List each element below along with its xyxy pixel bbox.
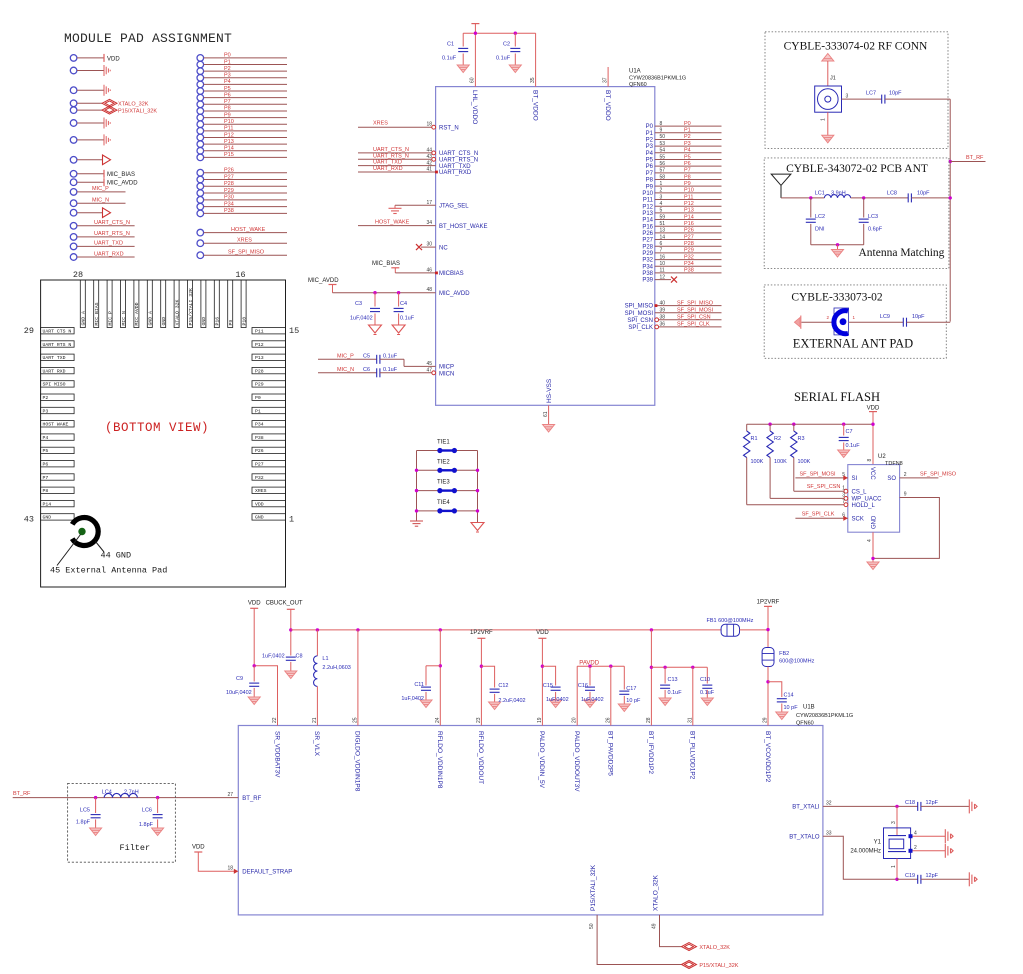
svg-text:DNI: DNI	[815, 227, 825, 233]
pin P1 U1A	[655, 132, 722, 134]
svg-text:SF_SPI_MOSI: SF_SPI_MOSI	[677, 308, 714, 314]
svg-text:UART TXD: UART TXD	[43, 355, 66, 361]
ferrite bead FB2	[762, 648, 774, 667]
TIE right ground	[471, 523, 484, 531]
svg-text:BT_IFVDD1P2: BT_IFVDD1P2	[647, 731, 654, 774]
svg-text:MICN: MICN	[439, 371, 454, 377]
svg-text:LC7: LC7	[866, 91, 876, 97]
wire TIE right rail	[477, 451, 479, 523]
svg-text:P11: P11	[224, 126, 233, 132]
node LC6 junction	[156, 796, 159, 799]
module left pad P7	[41, 474, 75, 480]
svg-text:35: 35	[530, 77, 536, 83]
svg-text:GND: GND	[255, 515, 264, 521]
pin P26 U1A	[655, 232, 722, 234]
pin P10 U1A	[655, 192, 722, 194]
pad P15/XTALI_32K	[70, 107, 77, 114]
svg-text:48: 48	[426, 287, 432, 293]
svg-text:9: 9	[904, 492, 907, 498]
pin NC	[421, 246, 436, 248]
svg-text:61: 61	[543, 411, 549, 417]
svg-text:SPI_CLK: SPI_CLK	[628, 325, 653, 331]
svg-text:Y1: Y1	[874, 840, 882, 846]
dashed box RF CONN	[765, 32, 948, 149]
svg-text:P32: P32	[684, 254, 694, 260]
svg-text:UART_RTS_N: UART_RTS_N	[439, 158, 478, 164]
svg-text:U2: U2	[878, 454, 886, 460]
svg-text:LC1: LC1	[815, 190, 825, 196]
svg-text:P28: P28	[255, 368, 264, 374]
module left pad P3	[41, 407, 75, 413]
svg-text:P34: P34	[642, 264, 653, 270]
svg-text:P10: P10	[241, 317, 247, 326]
pin P5 U1A	[655, 158, 722, 160]
capacitor LC5	[95, 798, 97, 813]
pin P3 U1A	[655, 145, 722, 147]
svg-text:DIGLDO_VDDIN1P8: DIGLDO_VDDIN1P8	[354, 731, 361, 792]
svg-text:P38: P38	[642, 271, 653, 277]
svg-text:2: 2	[914, 845, 917, 851]
svg-text:P34: P34	[224, 201, 234, 207]
pin P12 U1A	[655, 205, 722, 207]
module top pad GND A	[147, 280, 152, 328]
svg-text:MODULE PAD ASSIGNMENT: MODULE PAD ASSIGNMENT	[64, 31, 232, 46]
svg-text:4: 4	[867, 539, 873, 542]
svg-text:30: 30	[426, 242, 432, 248]
pad P8	[197, 108, 204, 115]
pad P7	[197, 101, 204, 108]
svg-text:SI: SI	[852, 476, 858, 482]
capacitor C2	[514, 33, 516, 46]
svg-text:BT_VDDO: BT_VDDO	[604, 90, 611, 121]
svg-text:P3: P3	[684, 141, 691, 147]
svg-text:P38: P38	[255, 435, 264, 441]
pin MICBIAS	[435, 272, 438, 275]
pin P4 U1A	[655, 152, 722, 154]
wire antenna to LC1	[781, 197, 824, 199]
module right pad P38	[252, 434, 286, 440]
svg-text:LC8: LC8	[887, 190, 897, 196]
module outline bottom view	[41, 280, 286, 587]
svg-text:P1: P1	[224, 59, 231, 65]
svg-text:GND: GND	[43, 515, 52, 521]
svg-text:VCC: VCC	[869, 467, 875, 480]
svg-text:MIC BIAS: MIC BIAS	[94, 302, 100, 325]
svg-text:HOST_WAKE: HOST_WAKE	[231, 227, 266, 233]
svg-text:1uF,0402: 1uF,0402	[546, 697, 569, 703]
pad P15	[197, 154, 204, 161]
svg-text:P15/XTALI 32K: P15/XTALI 32K	[188, 288, 194, 326]
jumper TIE4	[417, 510, 440, 512]
svg-text:46: 46	[426, 267, 432, 273]
pin P32 U1A	[655, 259, 722, 261]
svg-text:JTAG_SEL: JTAG_SEL	[439, 204, 469, 210]
svg-text:18: 18	[426, 122, 432, 128]
svg-text:13: 13	[660, 228, 666, 234]
svg-text:50: 50	[660, 134, 666, 140]
capacitor LC6	[157, 798, 159, 813]
svg-text:SF_SPI_CSN: SF_SPI_CSN	[677, 315, 711, 321]
svg-text:0.1uF: 0.1uF	[383, 353, 398, 359]
svg-text:8: 8	[867, 459, 873, 462]
svg-text:C14: C14	[784, 693, 794, 699]
svg-text:P29: P29	[255, 382, 264, 388]
svg-text:12pF: 12pF	[926, 873, 939, 879]
svg-text:24.000MHz: 24.000MHz	[850, 849, 881, 855]
module left pad UART CTS N	[41, 328, 75, 334]
svg-text:R2: R2	[774, 436, 781, 442]
svg-text:P9: P9	[646, 184, 654, 190]
svg-text:HOST_WAKE: HOST_WAKE	[375, 219, 410, 225]
svg-text:CS_L: CS_L	[852, 489, 868, 495]
svg-text:LC5: LC5	[80, 808, 90, 814]
pad tri 2	[70, 209, 77, 216]
module right pad P32	[252, 474, 286, 480]
crystal Y1	[896, 806, 898, 835]
svg-text:100K: 100K	[798, 459, 811, 465]
svg-text:P16: P16	[642, 224, 653, 230]
svg-text:TIE4: TIE4	[437, 500, 450, 506]
module right pad P13	[252, 354, 286, 360]
svg-text:HOLD_L: HOLD_L	[852, 503, 876, 509]
svg-text:P14: P14	[642, 218, 653, 224]
svg-text:45 External Antenna Pad: 45 External Antenna Pad	[50, 566, 167, 576]
svg-text:P11: P11	[684, 194, 693, 200]
svg-text:LC4: LC4	[102, 789, 112, 795]
svg-text:RST_N: RST_N	[439, 125, 459, 131]
pin SPI_CSN U1A	[656, 319, 722, 321]
svg-text:1: 1	[821, 118, 827, 121]
svg-text:GND: GND	[872, 515, 878, 529]
svg-text:VDD: VDD	[107, 56, 120, 62]
svg-text:P28: P28	[642, 244, 653, 250]
pad P27	[197, 176, 204, 183]
capacitor C15	[542, 666, 555, 685]
pad XTALO_32K	[70, 100, 77, 107]
pad P30	[197, 197, 204, 204]
module top pad MIC P	[107, 280, 112, 328]
pad NC flag 2	[70, 87, 77, 94]
svg-text:0.1uF: 0.1uF	[400, 316, 415, 322]
svg-text:2.2uH,0603: 2.2uH,0603	[322, 665, 350, 671]
svg-text:P0: P0	[684, 121, 691, 127]
pin BT_HOST_WAKE	[358, 225, 436, 227]
svg-text:P29: P29	[684, 248, 694, 254]
svg-text:GND: GND	[201, 317, 207, 326]
svg-text:LC9: LC9	[880, 314, 890, 320]
node LC5 junction	[94, 796, 97, 799]
svg-text:10: 10	[660, 261, 666, 267]
svg-text:VDD: VDD	[536, 630, 549, 636]
svg-text:P15/XTALI_32K: P15/XTALI_32K	[118, 109, 157, 115]
svg-text:43: 43	[24, 515, 34, 525]
pad NC flag 1	[70, 67, 77, 74]
pin P11 U1A	[655, 199, 722, 201]
svg-text:P0: P0	[255, 395, 261, 401]
pad UART_RTS_N	[70, 234, 77, 241]
svg-text:P14: P14	[224, 146, 234, 152]
svg-text:P34: P34	[684, 261, 694, 267]
svg-text:1.8pF: 1.8pF	[76, 820, 91, 826]
svg-text:LC6: LC6	[142, 808, 152, 814]
svg-text:18: 18	[227, 866, 233, 872]
svg-text:P0: P0	[646, 124, 654, 130]
svg-text:P12: P12	[224, 132, 234, 138]
svg-text:MIC AVDD: MIC AVDD	[134, 302, 140, 325]
svg-text:P27: P27	[224, 174, 234, 180]
svg-text:14: 14	[660, 234, 666, 240]
svg-text:TIE3: TIE3	[437, 480, 450, 486]
svg-text:0.1uF: 0.1uF	[700, 690, 715, 696]
svg-text:SCK: SCK	[852, 517, 864, 523]
pad P34	[197, 203, 204, 210]
svg-text:C17: C17	[626, 686, 636, 692]
svg-text:UART_RXD: UART_RXD	[439, 170, 472, 176]
svg-text:38: 38	[660, 315, 666, 321]
svg-text:P10: P10	[684, 188, 694, 194]
svg-text:C18: C18	[905, 800, 915, 806]
junction dots on VDD rail	[474, 32, 477, 35]
svg-text:7: 7	[842, 499, 845, 505]
svg-text:MIC N: MIC N	[121, 311, 127, 326]
svg-text:CYBLE-333074-02 RF CONN: CYBLE-333074-02 RF CONN	[784, 41, 928, 53]
svg-text:P16: P16	[684, 221, 694, 227]
svg-text:RFLDO_VDDIN1P8: RFLDO_VDDIN1P8	[436, 731, 443, 789]
svg-text:P9: P9	[684, 181, 691, 187]
svg-text:P6: P6	[224, 92, 231, 98]
svg-text:51: 51	[660, 221, 666, 227]
svg-text:MIC_BIAS: MIC_BIAS	[372, 261, 400, 267]
svg-text:0.1uF: 0.1uF	[442, 56, 457, 62]
capacitor C3	[374, 293, 376, 307]
svg-text:2: 2	[660, 188, 663, 194]
capacitor LC8	[908, 193, 911, 202]
svg-text:MIC_AVDD: MIC_AVDD	[107, 181, 138, 187]
svg-text:P4: P4	[43, 435, 49, 441]
wire RFLDO_VDDIN pin	[439, 630, 441, 726]
svg-text:C1: C1	[447, 42, 454, 48]
pad P5	[197, 88, 204, 95]
svg-text:P15/XTALI_32K: P15/XTALI_32K	[590, 864, 597, 911]
svg-text:SERIAL FLASH: SERIAL FLASH	[794, 390, 880, 404]
svg-text:GND A: GND A	[81, 311, 87, 326]
svg-text:BT_RF: BT_RF	[13, 791, 31, 797]
svg-text:10 pF: 10 pF	[626, 698, 641, 704]
pin P27 U1A	[655, 239, 722, 241]
svg-text:10uF,0402: 10uF,0402	[226, 690, 252, 696]
module right pad P12	[252, 341, 286, 347]
svg-text:28: 28	[73, 270, 83, 280]
pin P7 U1A	[655, 172, 722, 174]
svg-text:MIC P: MIC P	[107, 311, 113, 326]
svg-text:XRES: XRES	[373, 121, 388, 127]
pin P29 U1A	[655, 252, 722, 254]
svg-text:SF_SPI_CSN: SF_SPI_CSN	[807, 484, 841, 490]
svg-text:LC3: LC3	[868, 214, 878, 220]
pad P28	[197, 183, 204, 190]
pin RST_N / XRES	[358, 126, 434, 128]
svg-text:MIC_BIAS: MIC_BIAS	[107, 172, 135, 178]
ground serial flash	[867, 562, 879, 570]
svg-text:UART CTS N: UART CTS N	[43, 329, 72, 335]
svg-text:57: 57	[660, 168, 666, 174]
resistor R2 100K	[769, 424, 771, 431]
svg-text:P8: P8	[43, 488, 49, 494]
svg-text:5: 5	[660, 208, 663, 214]
pin P34 U1A	[655, 265, 722, 267]
svg-text:(BOTTOM VIEW): (BOTTOM VIEW)	[105, 421, 209, 435]
svg-text:1uF,0402: 1uF,0402	[581, 697, 604, 703]
svg-text:P1: P1	[646, 131, 654, 137]
svg-text:39: 39	[660, 308, 666, 314]
module left pad GND	[41, 514, 75, 520]
capacitor LC9	[903, 318, 906, 327]
svg-text:P8: P8	[684, 174, 691, 180]
svg-text:56: 56	[660, 161, 666, 167]
capacitor C8	[286, 657, 296, 660]
module right pad P26	[252, 447, 286, 453]
wire pullup rail	[747, 423, 873, 425]
svg-text:0.6pF: 0.6pF	[868, 227, 883, 233]
svg-text:WP_UACC: WP_UACC	[852, 497, 883, 503]
BT_RF vertical rail	[949, 99, 951, 322]
module top pad GND A	[80, 280, 85, 328]
svg-text:10pF: 10pF	[912, 314, 925, 320]
svg-text:VDD: VDD	[867, 406, 880, 412]
module right pad GND	[252, 514, 286, 520]
svg-text:UART_TXD: UART_TXD	[373, 160, 402, 166]
pad VDD	[70, 55, 77, 62]
svg-text:P5: P5	[43, 448, 49, 454]
svg-text:29: 29	[24, 326, 34, 336]
capacitor LC2 DNI	[810, 198, 812, 218]
svg-text:P2: P2	[646, 138, 654, 144]
svg-text:1uF,0402: 1uF,0402	[262, 654, 285, 660]
svg-text:C4: C4	[400, 301, 407, 307]
svg-text:600@100MHz: 600@100MHz	[779, 659, 814, 665]
flash chip U2 box	[848, 465, 900, 533]
svg-text:P6: P6	[646, 164, 654, 170]
svg-text:P4: P4	[684, 148, 691, 154]
svg-text:P6: P6	[43, 462, 49, 468]
svg-text:UART_TXD: UART_TXD	[94, 241, 123, 247]
svg-text:P1: P1	[684, 128, 691, 134]
svg-text:P13: P13	[684, 208, 694, 214]
svg-text:P4: P4	[646, 151, 654, 157]
svg-text:VDD: VDD	[192, 845, 205, 851]
module right pad P29	[252, 381, 286, 387]
svg-text:CYBLE-343072-02 PCB ANT: CYBLE-343072-02 PCB ANT	[786, 163, 928, 175]
svg-text:UART_RXD: UART_RXD	[373, 166, 403, 172]
pad P3	[197, 74, 204, 81]
svg-text:1P2VRF: 1P2VRF	[757, 600, 780, 606]
wire BT_IFVDD1P2 junction	[650, 630, 652, 726]
svg-text:12: 12	[660, 274, 666, 280]
svg-text:P15/XTALI_32K: P15/XTALI_32K	[699, 963, 738, 969]
svg-text:Filter: Filter	[120, 843, 151, 853]
wire TIE left rail	[416, 451, 418, 522]
svg-text:C6: C6	[363, 367, 370, 373]
svg-text:P13: P13	[224, 139, 234, 145]
dashed box PCB ANT	[764, 158, 949, 269]
svg-text:36: 36	[660, 322, 666, 328]
svg-text:P7: P7	[43, 475, 49, 481]
svg-text:P2: P2	[43, 395, 49, 401]
svg-text:6: 6	[842, 513, 845, 519]
pin P14 U1A	[655, 219, 722, 221]
module top pad MIC N	[121, 280, 126, 328]
pin UART_TXD	[358, 165, 436, 167]
svg-text:PALDO_VDDIN_5V: PALDO_VDDIN_5V	[538, 731, 545, 789]
ferrite bead FB1	[721, 624, 739, 636]
svg-text:SF_SPI_CLK: SF_SPI_CLK	[802, 512, 835, 518]
jumper TIE3	[417, 490, 440, 492]
svg-text:1uF,0402: 1uF,0402	[401, 696, 424, 702]
svg-text:P5: P5	[684, 154, 691, 160]
svg-text:BT_RF: BT_RF	[242, 796, 261, 802]
svg-text:P2: P2	[224, 66, 231, 72]
svg-text:BT_PAVDD2P5: BT_PAVDD2P5	[607, 731, 614, 776]
svg-text:CBUCK_OUT: CBUCK_OUT	[266, 601, 303, 607]
module right pad P0	[252, 394, 286, 400]
pad P14	[197, 147, 204, 154]
svg-text:P30: P30	[224, 195, 234, 201]
wire DIGLDO pin	[357, 630, 359, 726]
svg-text:54: 54	[660, 148, 666, 154]
svg-text:GND A: GND A	[148, 311, 154, 326]
svg-text:Antenna Matching: Antenna Matching	[859, 247, 945, 259]
svg-text:P32: P32	[642, 258, 653, 264]
svg-text:58: 58	[660, 174, 666, 180]
leader lines	[96, 542, 105, 553]
svg-text:SO: SO	[887, 476, 896, 482]
pad P0	[197, 55, 204, 62]
U2 pin 9	[873, 498, 939, 559]
svg-text:0.1uF: 0.1uF	[668, 690, 683, 696]
svg-text:0.1uF: 0.1uF	[846, 443, 861, 449]
svg-text:P11: P11	[643, 198, 654, 204]
capacitor C11	[426, 665, 440, 667]
svg-text:10pF: 10pF	[917, 190, 930, 196]
wire BT_PLLVDD1P2 pin	[692, 667, 694, 725]
svg-text:P13: P13	[255, 355, 264, 361]
op chip U1B box	[238, 726, 823, 915]
svg-text:P29: P29	[224, 188, 234, 194]
svg-text:C16: C16	[578, 683, 588, 689]
svg-text:J1: J1	[830, 76, 836, 82]
svg-text:2.7nH: 2.7nH	[124, 789, 139, 795]
svg-text:R1: R1	[751, 436, 758, 442]
svg-text:UART_CTS_N: UART_CTS_N	[439, 151, 478, 157]
U2 pin WP_UACC	[844, 497, 848, 501]
module right pad P28	[252, 367, 286, 373]
module left pad SPI MISO	[41, 381, 75, 387]
svg-text:P32: P32	[255, 475, 264, 481]
svg-text:33: 33	[826, 830, 832, 836]
svg-text:7: 7	[660, 248, 663, 254]
svg-text:C9: C9	[236, 676, 243, 682]
module top pad GND	[201, 280, 206, 328]
svg-text:XTALO_32K: XTALO_32K	[653, 874, 660, 911]
svg-text:37: 37	[602, 77, 608, 83]
svg-text:P3: P3	[646, 144, 654, 150]
svg-text:5: 5	[842, 472, 845, 478]
module left pad P14	[41, 500, 75, 506]
svg-text:R3: R3	[798, 436, 805, 442]
svg-text:45: 45	[426, 361, 432, 367]
svg-text:HOST WAKE: HOST WAKE	[43, 422, 69, 428]
pad P29	[197, 190, 204, 197]
